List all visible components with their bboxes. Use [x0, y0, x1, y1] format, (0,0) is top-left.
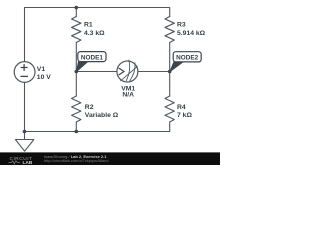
- wire R1 top stub: [75, 8, 77, 17]
- svg-text:NODE1: NODE1: [81, 54, 103, 61]
- svg-text:LAB: LAB: [23, 160, 33, 165]
- junction bottom rail / R2: [75, 130, 79, 134]
- wire R3 bottom to node B: [169, 43, 171, 97]
- wire V1 bottom: [24, 82, 26, 131]
- junction dot top rail / R1: [75, 6, 79, 10]
- voltage source V1: [14, 62, 35, 83]
- svg-text:R3: R3: [177, 21, 186, 28]
- voltmeter polarity mark: [119, 68, 124, 75]
- junction node A: [75, 70, 79, 74]
- ground: [15, 132, 34, 152]
- svg-text:Variable Ω: Variable Ω: [85, 112, 119, 119]
- node flag NODE2 tail: [170, 62, 183, 72]
- wire R1 bottom to node A: [75, 43, 77, 72]
- svg-text:10 V: 10 V: [37, 74, 51, 81]
- footer bar: [0, 152, 220, 165]
- svg-text:N/A: N/A: [122, 91, 134, 98]
- voltmeter VM1: [117, 61, 138, 82]
- resistor R2: [72, 96, 81, 122]
- junction node B: [168, 70, 172, 74]
- wire bottom rail: [25, 122, 170, 132]
- svg-text:http://circuitlab.com/c/7ckpqa: http://circuitlab.com/c/7ckpqav58am/: [44, 158, 110, 163]
- node flag NODE1 tail: [77, 62, 88, 72]
- footer logo zigzag: [9, 161, 21, 164]
- svg-text:7 kΩ: 7 kΩ: [177, 112, 192, 119]
- svg-text:R2: R2: [85, 104, 94, 111]
- resistor R3: [165, 17, 174, 43]
- svg-text:V1: V1: [37, 66, 46, 73]
- node flag NODE1: [78, 52, 106, 62]
- wire node A to R2: [75, 72, 77, 97]
- wire top rail: [25, 8, 170, 62]
- svg-text:R4: R4: [177, 104, 186, 111]
- wire node A to voltmeter: [76, 71, 117, 73]
- V1 plus sign: [21, 64, 28, 71]
- voltmeter meter arcs: [126, 60, 135, 81]
- resistor R4: [165, 96, 174, 122]
- svg-text:NODE2: NODE2: [176, 55, 198, 62]
- wire R2 bottom: [75, 122, 77, 132]
- voltmeter needle: [121, 67, 138, 81]
- V1 minus sign: [20, 75, 28, 77]
- wire voltmeter to node B: [138, 71, 170, 73]
- node flag NODE2: [173, 52, 201, 62]
- svg-text:5.914 kΩ: 5.914 kΩ: [177, 30, 206, 37]
- svg-text:4.3 kΩ: 4.3 kΩ: [84, 30, 105, 37]
- junction bottom rail / ground: [23, 130, 27, 134]
- resistor R1: [72, 17, 81, 43]
- svg-text:R1: R1: [84, 21, 93, 28]
